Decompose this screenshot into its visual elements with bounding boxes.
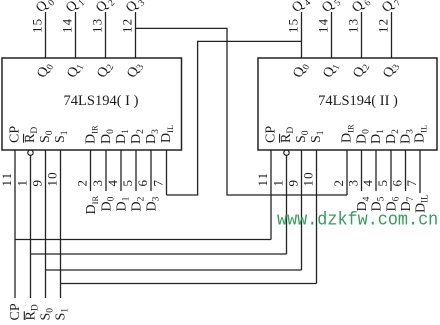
U2 pin label Q3 bbox=[381, 60, 403, 81]
wire RD bus bbox=[31, 253, 287, 255]
svg-text:15: 15 bbox=[30, 18, 45, 33]
node D0 label bbox=[100, 196, 117, 211]
wire U1 Q3 to U2 DIR bbox=[136, 28, 348, 195]
node D6 label bbox=[385, 196, 402, 211]
U2 pin label RD bbox=[279, 127, 296, 143]
U2 pin label Q2 bbox=[351, 60, 373, 81]
svg-text:9: 9 bbox=[286, 179, 301, 187]
U2 pin label S0 bbox=[294, 130, 311, 143]
U1 pin 1 RD wire bbox=[15, 155, 31, 298]
svg-text:14: 14 bbox=[60, 18, 75, 33]
node D2 label bbox=[130, 196, 147, 211]
svg-text:6: 6 bbox=[135, 179, 150, 187]
node CP input label bbox=[8, 303, 23, 320]
node S1 input label bbox=[54, 308, 71, 321]
IC U2 74LS194(II) body bbox=[258, 58, 437, 150]
svg-text:3: 3 bbox=[90, 179, 105, 187]
U2 pin 12 Q3 wire bbox=[376, 12, 392, 58]
U2 pin 4 D5 wire bbox=[360, 150, 376, 191]
U1 pin 15 Q0 wire bbox=[30, 12, 46, 58]
svg-text:CP: CP bbox=[8, 303, 23, 320]
U2 pin 6 D7 wire bbox=[390, 150, 406, 191]
svg-text:74LS194( II ): 74LS194( II ) bbox=[318, 93, 398, 109]
svg-text:10: 10 bbox=[301, 171, 316, 186]
U1 pin label DIR bbox=[84, 125, 100, 144]
watermark www.dzkfw.com.cn bbox=[277, 210, 438, 231]
node D1 label bbox=[115, 196, 132, 211]
U2 pin label D0 bbox=[355, 129, 372, 144]
U1 pin 13 Q2 wire bbox=[90, 12, 106, 58]
svg-text:5: 5 bbox=[120, 179, 135, 187]
wire CP bus bbox=[15, 239, 271, 241]
U1 pin label D0 bbox=[99, 129, 116, 144]
U1 pin label DIL bbox=[159, 125, 175, 143]
svg-text:12: 12 bbox=[120, 18, 135, 33]
node DIR label bbox=[84, 196, 100, 215]
svg-text:CP: CP bbox=[264, 126, 279, 143]
U2 pin label CP bbox=[264, 126, 279, 143]
U2 pin label DIL bbox=[413, 125, 429, 143]
svg-text:7: 7 bbox=[404, 179, 419, 187]
svg-text:12: 12 bbox=[376, 18, 391, 33]
svg-text:4: 4 bbox=[360, 179, 375, 187]
node Q4 bbox=[289, 0, 314, 17]
svg-text:11: 11 bbox=[255, 172, 270, 187]
svg-text:9: 9 bbox=[30, 179, 45, 187]
U1 pin 14 Q1 wire bbox=[60, 12, 76, 58]
node Q6 bbox=[349, 0, 374, 17]
U1 pin label Q1 bbox=[65, 60, 87, 81]
node D3 label bbox=[145, 196, 162, 211]
node D7 label bbox=[399, 196, 416, 211]
IC U1 74LS194(I) body bbox=[2, 58, 182, 150]
U1 pin label D3 bbox=[144, 129, 161, 144]
node DIL label bbox=[414, 194, 430, 213]
svg-text:1: 1 bbox=[271, 179, 286, 187]
node S0 input label bbox=[39, 308, 56, 321]
U2 pin label D1 bbox=[369, 129, 386, 144]
node D4 label bbox=[355, 196, 372, 211]
node Q2 bbox=[93, 0, 118, 17]
node Q3 bbox=[123, 0, 148, 17]
node Q7 bbox=[379, 0, 404, 17]
svg-text:2: 2 bbox=[75, 179, 90, 187]
U2 pin 1 RD wire bbox=[271, 155, 287, 254]
U2 pin label Q1 bbox=[321, 60, 343, 81]
U1 pin 10 S1 wire bbox=[45, 150, 61, 298]
node Q0 bbox=[33, 0, 58, 17]
U2 pin label DIR bbox=[340, 124, 356, 143]
svg-text:6: 6 bbox=[390, 179, 405, 187]
svg-text:10: 10 bbox=[45, 171, 60, 186]
U1 pin label CP bbox=[8, 126, 23, 143]
U1 pin label RD bbox=[23, 127, 40, 143]
U2 pin 13 Q2 wire bbox=[346, 12, 362, 58]
U1 pin label Q0 bbox=[35, 60, 57, 81]
U1 pin 1 RD bubble bbox=[28, 150, 33, 155]
svg-text:11: 11 bbox=[0, 172, 14, 187]
U1 pin label D2 bbox=[129, 129, 146, 144]
svg-text:7: 7 bbox=[151, 179, 166, 187]
U2 pin label S1 bbox=[309, 130, 326, 143]
U1 pin 6 D3 wire bbox=[135, 150, 151, 191]
U2 pin 7 DIL wire bbox=[404, 150, 420, 193]
svg-text:2: 2 bbox=[331, 179, 346, 187]
svg-text:74LS194( I ): 74LS194( I ) bbox=[64, 93, 139, 109]
U1 pin label S1 bbox=[53, 130, 70, 143]
node Q1 bbox=[63, 0, 88, 17]
wire S1 bus bbox=[61, 283, 317, 285]
U1 pin label Q3 bbox=[125, 60, 147, 81]
U2 pin label D2 bbox=[384, 129, 401, 144]
svg-text:15: 15 bbox=[286, 18, 301, 33]
U1 pin 2 DIR wire bbox=[75, 150, 91, 191]
svg-text:13: 13 bbox=[90, 18, 105, 33]
node D5 label bbox=[370, 196, 387, 211]
U2 pin label D3 bbox=[399, 129, 416, 144]
U1 pin 12 Q3 wire bbox=[120, 12, 136, 58]
U1 pin 7 DIL wire bbox=[151, 150, 167, 195]
svg-text:3: 3 bbox=[346, 179, 361, 187]
U1 pin 4 D1 wire bbox=[105, 150, 121, 191]
U2 pin label Q0 bbox=[291, 60, 313, 81]
U1 pin 3 D0 wire bbox=[90, 150, 106, 191]
U2 pin 10 S1 wire bbox=[301, 150, 317, 284]
svg-text:14: 14 bbox=[316, 18, 331, 33]
wire S0 bus bbox=[46, 269, 302, 271]
U1 pin 11 CP wire bbox=[0, 150, 15, 298]
node RD input label bbox=[24, 304, 41, 320]
U2 pin 11 CP wire bbox=[255, 150, 271, 240]
U1 pin 5 D2 wire bbox=[120, 150, 136, 191]
U2 pin 5 D6 wire bbox=[375, 150, 391, 191]
U2 pin 3 D4 wire bbox=[346, 150, 362, 191]
node Q5 bbox=[319, 0, 344, 17]
svg-text:4: 4 bbox=[105, 179, 120, 187]
U1 pin 9 S0 wire bbox=[30, 150, 46, 298]
svg-text:13: 13 bbox=[346, 18, 361, 33]
svg-text:CP: CP bbox=[8, 126, 23, 143]
U2 pin 14 Q1 wire bbox=[316, 12, 332, 58]
svg-text:5: 5 bbox=[375, 179, 390, 187]
U1 pin label D1 bbox=[114, 129, 131, 144]
U2 pin 15 Q0 wire bbox=[286, 12, 302, 58]
svg-text:1: 1 bbox=[15, 179, 30, 187]
wire U2 Q0 to U1 DIL bbox=[167, 41, 302, 195]
U1 pin label S0 bbox=[38, 130, 55, 143]
svg-text:www.dzkfw.com.cn: www.dzkfw.com.cn bbox=[277, 210, 438, 231]
U1 pin label Q2 bbox=[95, 60, 117, 81]
U2 pin 1 RD bubble bbox=[284, 150, 289, 155]
U2 pin 2 DIR wire bbox=[331, 150, 347, 195]
U2 pin 9 S0 wire bbox=[286, 150, 302, 270]
